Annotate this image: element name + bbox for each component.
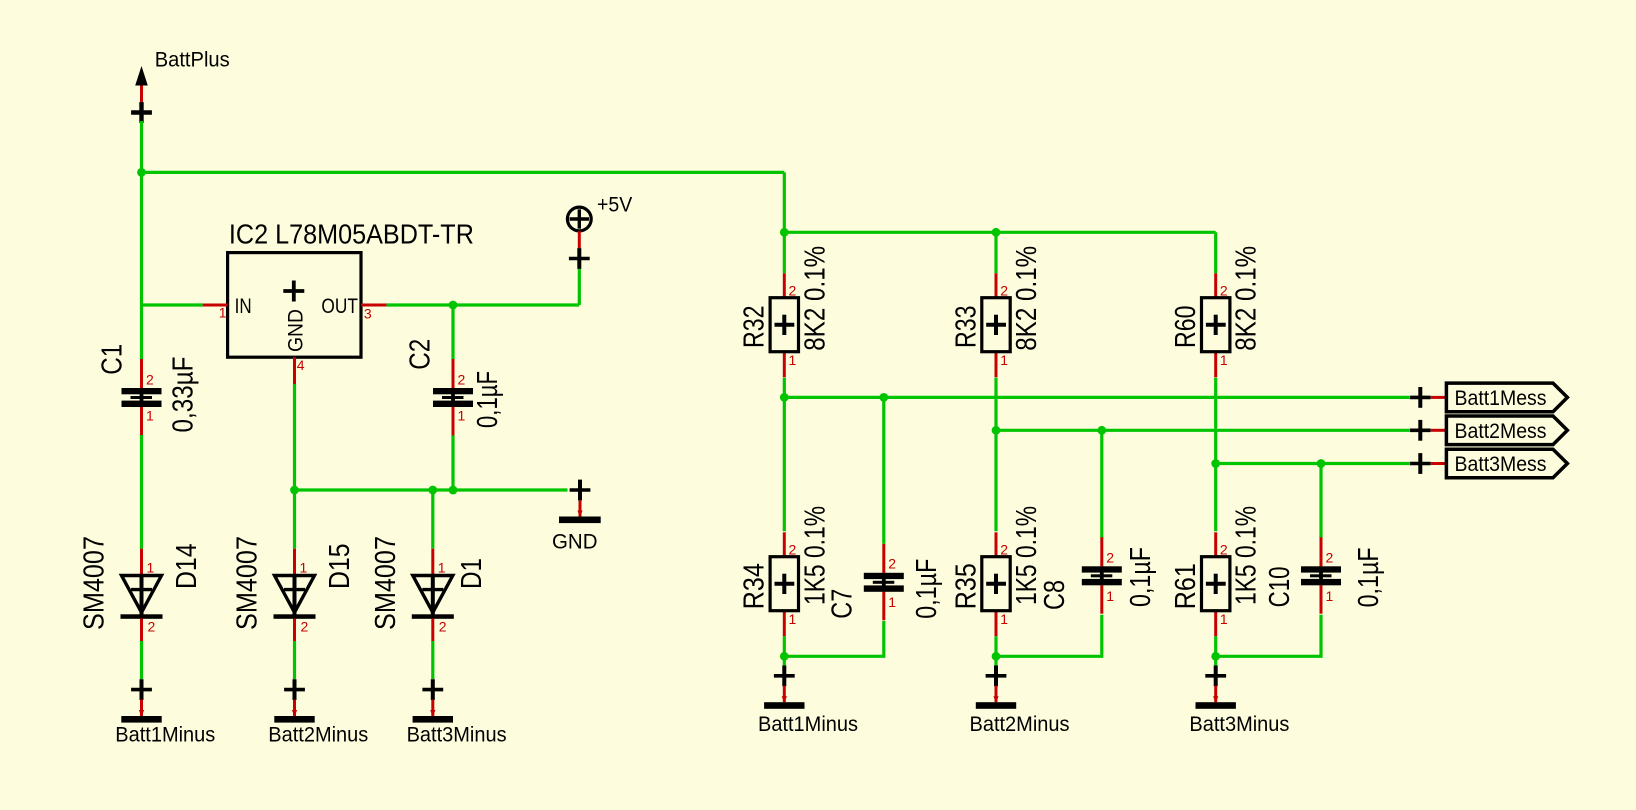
svg-text:R35: R35: [950, 563, 982, 609]
svg-text:+5V: +5V: [597, 193, 633, 217]
svg-text:8K2 0.1%: 8K2 0.1%: [799, 246, 831, 351]
svg-text:2: 2: [789, 283, 797, 299]
resistor R60: [1202, 273, 1230, 377]
diode D14 SM4007: [121, 549, 163, 641]
svg-text:SM4007: SM4007: [370, 536, 402, 630]
node cross at +5V: [569, 248, 590, 269]
svg-text:1: 1: [147, 560, 155, 576]
svg-text:0,1µF: 0,1µF: [1353, 547, 1385, 607]
junction bottom: [780, 652, 789, 661]
wire row1 Batt1Mess: [784, 396, 1409, 399]
svg-text:2: 2: [1220, 283, 1228, 299]
resistor R32: [770, 273, 798, 377]
node cross Batt3Mess: [1410, 453, 1431, 474]
wire to R33: [994, 232, 997, 273]
junction bottom: [1211, 652, 1220, 661]
wire C7 top: [882, 397, 885, 543]
resistor R61: [1202, 532, 1230, 636]
svg-text:C2: C2: [405, 339, 437, 370]
node cross Batt2Minus right: [986, 665, 1007, 686]
wire OUT net: [387, 303, 580, 306]
svg-text:OUT: OUT: [321, 294, 358, 318]
node cross at BattPlus: [131, 102, 152, 123]
junction row1 at R32: [780, 393, 789, 402]
junction gnd net at D15: [290, 486, 299, 495]
wire C8 top: [1100, 430, 1103, 538]
off-page flag Batt1Mess: [1446, 383, 1567, 412]
svg-text:IN: IN: [235, 294, 252, 318]
wire diode to ground: [431, 641, 434, 679]
node cross Batt3Minus right: [1205, 665, 1226, 686]
svg-text:Batt3Mess: Batt3Mess: [1455, 452, 1547, 476]
wire resistor bottom: [1214, 636, 1217, 665]
wire to D15: [293, 490, 296, 549]
ground symbol Batt1Minus right: [764, 686, 804, 709]
junction row3 at R60: [1211, 459, 1220, 468]
diode D15 SM4007: [274, 549, 316, 641]
wire diode to ground: [140, 641, 143, 679]
junction OUT/C2: [449, 301, 458, 310]
svg-text:SM4007: SM4007: [79, 536, 111, 630]
wire rail drop: [783, 172, 786, 232]
junction row3 at C10: [1317, 459, 1326, 468]
capacitor C2: [433, 359, 473, 435]
svg-text:R34: R34: [739, 563, 771, 609]
junction bottom: [992, 652, 1001, 661]
wire R60-R61 column: [1214, 378, 1217, 532]
ground symbol Batt3Minus right: [1196, 686, 1236, 709]
svg-text:1: 1: [146, 408, 154, 424]
junction row2 at C8: [1097, 426, 1106, 435]
wire R33-R35 column: [994, 378, 997, 532]
svg-text:1: 1: [789, 611, 797, 627]
svg-text:1: 1: [438, 560, 446, 576]
pin of flag Batt3Mess: [1431, 462, 1447, 465]
wire bottom join: [784, 621, 884, 656]
svg-text:D15: D15: [324, 544, 356, 590]
capacitor C7: [864, 544, 904, 620]
svg-text:D14: D14: [171, 544, 203, 590]
supply symbol BattPlus: [135, 66, 148, 104]
wire resistor bottom: [783, 636, 786, 665]
wire BattPlus column: [140, 121, 143, 359]
svg-text:GND: GND: [284, 309, 308, 352]
svg-text:8K2 0.1%: 8K2 0.1%: [1011, 246, 1043, 351]
wire to D1: [431, 490, 434, 549]
svg-text:IC2 L78M05ABDT-TR: IC2 L78M05ABDT-TR: [229, 219, 474, 250]
svg-text:2: 2: [1000, 542, 1008, 558]
svg-text:2: 2: [146, 372, 154, 388]
svg-text:2: 2: [439, 619, 447, 635]
svg-text:2: 2: [1000, 283, 1008, 299]
svg-text:1: 1: [300, 560, 308, 576]
svg-text:0,33µF: 0,33µF: [168, 357, 200, 433]
wire C1 to D14: [140, 435, 143, 549]
wire bottom join: [996, 615, 1102, 657]
ground symbol GND: [559, 501, 601, 524]
wire resistor bottom: [994, 636, 997, 665]
svg-text:2: 2: [301, 619, 309, 635]
svg-text:8K2 0.1%: 8K2 0.1%: [1231, 246, 1263, 351]
svg-text:2: 2: [1326, 549, 1334, 565]
capacitor C8: [1082, 537, 1122, 613]
svg-text:1: 1: [458, 408, 466, 424]
svg-text:Batt2Minus: Batt2Minus: [970, 712, 1070, 736]
junction row2 at R33: [992, 426, 1001, 435]
op-amp/regulator IC2 L78M05ABDT-TR: [203, 253, 387, 384]
svg-text:R60: R60: [1170, 306, 1202, 349]
junction rail2 at R33: [992, 228, 1001, 237]
pin of flag Batt1Mess: [1431, 396, 1447, 399]
svg-text:2: 2: [148, 619, 156, 635]
svg-text:R33: R33: [950, 306, 982, 349]
wire to R32: [783, 232, 786, 273]
svg-text:Batt3Minus: Batt3Minus: [407, 723, 507, 747]
wire row3 Batt3Mess: [1216, 462, 1410, 465]
wire rail2: [784, 231, 1215, 234]
svg-text:GND: GND: [552, 530, 598, 554]
svg-text:1: 1: [789, 352, 797, 368]
junction rail2 at R32: [780, 228, 789, 237]
ground symbol Batt1Minus left: [121, 700, 161, 723]
wire top rail BattPlus: [142, 171, 785, 174]
supply symbol +5V: [567, 207, 591, 248]
resistor R35: [982, 532, 1010, 636]
junction gnd net at C2: [449, 486, 458, 495]
svg-text:1: 1: [888, 594, 896, 610]
capacitor C10: [1301, 537, 1341, 613]
svg-text:Batt1Minus: Batt1Minus: [758, 712, 858, 736]
node cross Batt1Mess: [1410, 387, 1431, 408]
junction row1 at C7: [879, 393, 888, 402]
svg-text:1: 1: [1106, 588, 1114, 604]
svg-text:Batt3Minus: Batt3Minus: [1189, 712, 1289, 736]
wire C2 top: [451, 305, 454, 359]
wire R32-R34 column: [783, 378, 786, 532]
svg-text:D1: D1: [456, 558, 488, 589]
wire +5V drop: [578, 269, 581, 305]
off-page flag Batt2Mess: [1446, 416, 1567, 445]
ground symbol Batt2Minus left: [274, 700, 314, 723]
svg-text:Batt1Mess: Batt1Mess: [1455, 386, 1547, 410]
svg-text:BattPlus: BattPlus: [155, 47, 230, 71]
node cross Batt1Minus left: [131, 679, 152, 700]
resistor R33: [982, 273, 1010, 377]
wire bottom join: [1216, 615, 1321, 657]
node cross at GND symbol: [570, 480, 591, 501]
svg-text:C1: C1: [97, 344, 129, 375]
svg-text:2: 2: [1106, 549, 1114, 565]
wire IC2 pin4 down: [293, 384, 296, 490]
svg-text:R61: R61: [1170, 563, 1202, 609]
svg-text:C10: C10: [1264, 566, 1296, 607]
node cross Batt2Mess: [1410, 420, 1431, 441]
svg-text:0,1µF: 0,1µF: [911, 559, 943, 619]
svg-text:4: 4: [297, 357, 305, 373]
node cross Batt3Minus left: [422, 679, 443, 700]
wire row2 Batt2Mess: [996, 429, 1410, 432]
svg-text:1K5 0.1%: 1K5 0.1%: [1231, 506, 1263, 605]
svg-text:2: 2: [1220, 542, 1228, 558]
capacitor C1: [122, 359, 162, 435]
svg-text:2: 2: [888, 556, 896, 572]
node cross Batt1Minus right: [774, 665, 795, 686]
wire C2 to gnd net: [451, 435, 454, 490]
svg-text:2: 2: [789, 542, 797, 558]
junction gnd net at D1: [428, 486, 437, 495]
svg-text:3: 3: [364, 306, 372, 322]
svg-text:0,1µF: 0,1µF: [472, 371, 504, 428]
wire diode to ground: [293, 641, 296, 679]
wire gnd net horizontal: [295, 488, 568, 491]
svg-text:C7: C7: [826, 589, 858, 619]
off-page flag Batt3Mess: [1446, 449, 1567, 478]
svg-text:Batt2Mess: Batt2Mess: [1455, 419, 1547, 443]
wire to R60: [1214, 232, 1217, 273]
svg-text:1: 1: [219, 305, 227, 321]
svg-text:Batt1Minus: Batt1Minus: [115, 723, 215, 747]
svg-text:SM4007: SM4007: [232, 536, 264, 630]
svg-text:1: 1: [1220, 352, 1228, 368]
ground symbol Batt2Minus right: [976, 686, 1016, 709]
svg-text:1: 1: [1326, 588, 1334, 604]
svg-text:1: 1: [1000, 611, 1008, 627]
diode D1 SM4007: [412, 549, 454, 641]
svg-text:C8: C8: [1039, 580, 1071, 610]
node cross Batt2Minus left: [284, 679, 305, 700]
svg-text:1: 1: [1220, 611, 1228, 627]
ground symbol Batt3Minus left: [413, 700, 453, 723]
wire to IC2 IN: [142, 303, 203, 306]
pin of flag Batt2Mess: [1431, 429, 1447, 432]
wire C10 top: [1319, 464, 1322, 539]
junction at top rail: [137, 168, 146, 177]
svg-text:R32: R32: [739, 306, 771, 349]
svg-text:1: 1: [1000, 352, 1008, 368]
svg-text:0,1µF: 0,1µF: [1125, 547, 1157, 607]
svg-text:2: 2: [458, 372, 466, 388]
svg-text:Batt2Minus: Batt2Minus: [268, 723, 368, 747]
resistor R34: [770, 532, 798, 636]
